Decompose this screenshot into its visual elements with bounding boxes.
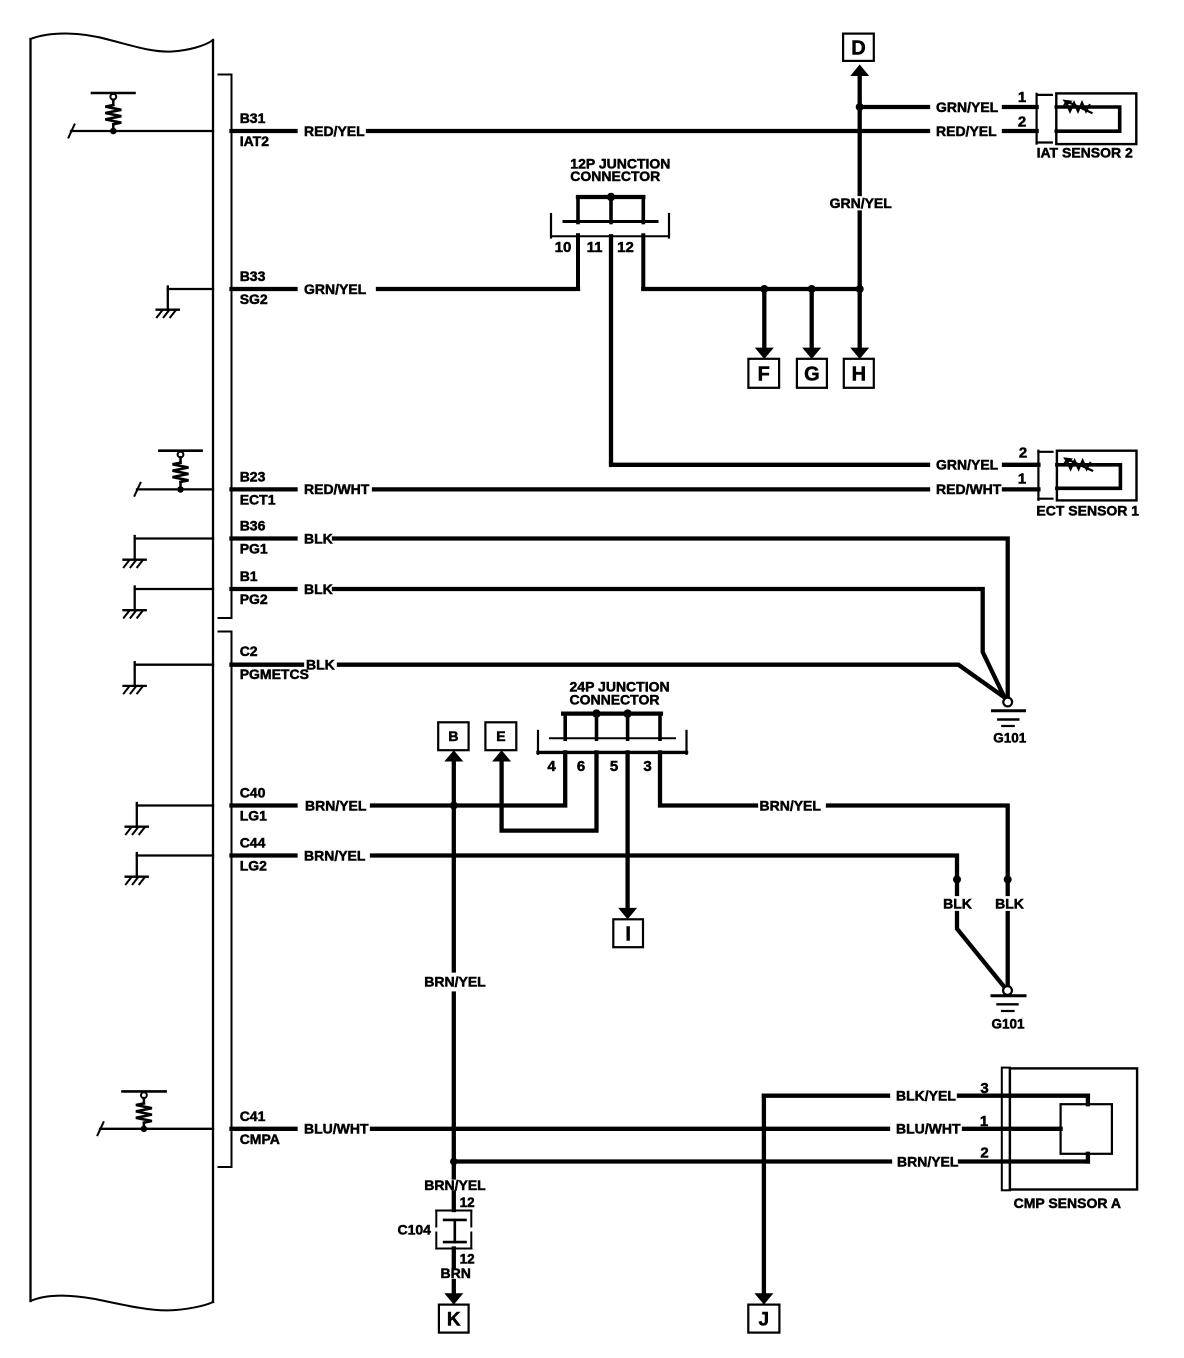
svg-text:C44: C44 xyxy=(240,835,266,851)
inline connector C104 xyxy=(436,1211,471,1249)
svg-text:LG1: LG1 xyxy=(240,808,267,824)
svg-text:11: 11 xyxy=(587,239,603,256)
wire-continuation slash B23 xyxy=(135,483,141,496)
svg-text:RED/WHT: RED/WHT xyxy=(936,481,1002,497)
ground SG2 internal xyxy=(157,287,213,318)
svg-text:B36: B36 xyxy=(240,518,266,534)
svg-text:E: E xyxy=(496,728,505,744)
resistor (ECT1 pull-up inside ECM) xyxy=(159,451,201,493)
wire BRN from C104 to K xyxy=(452,1249,456,1294)
resistor (IAT2 pull-up inside ECM) xyxy=(92,93,135,134)
wire BRN/YEL from 24P pin 3 to BLK drop xyxy=(660,752,1008,986)
ground PG1 internal xyxy=(124,536,214,567)
svg-text:B23: B23 xyxy=(240,468,266,484)
svg-text:B33: B33 xyxy=(240,268,266,284)
svg-text:BRN/YEL: BRN/YEL xyxy=(897,1153,959,1169)
ground PGMETCS internal xyxy=(124,662,214,693)
svg-text:5: 5 xyxy=(610,758,618,775)
svg-text:F: F xyxy=(758,364,770,386)
svg-text:BLK: BLK xyxy=(304,581,333,597)
IAT sensor 2 harness connector bracket xyxy=(1037,94,1052,144)
svg-text:RED/YEL: RED/YEL xyxy=(936,123,997,139)
junction dot H xyxy=(856,285,864,293)
CMP sensor A body xyxy=(1010,1068,1137,1189)
svg-text:G101: G101 xyxy=(993,731,1027,746)
ECT sensor 1 internal circuit xyxy=(1057,457,1121,488)
connector box H xyxy=(844,359,874,388)
svg-text:BRN/YEL: BRN/YEL xyxy=(424,1177,486,1193)
wire RED/WHT row B23 to ECT sensor 1 pin 1 xyxy=(232,487,1039,491)
svg-text:BLK: BLK xyxy=(306,656,335,672)
svg-text:CONNECTOR: CONNECTOR xyxy=(570,168,660,184)
svg-text:J: J xyxy=(759,1309,770,1330)
svg-text:1: 1 xyxy=(1018,471,1026,488)
24P junction connector pin 5 wire xyxy=(626,714,630,740)
12P junction connector busbar xyxy=(578,193,643,201)
IAT sensor 2 internal circuit xyxy=(1056,100,1119,132)
svg-text:2: 2 xyxy=(1018,114,1026,131)
CMP sensor A harness connector bracket xyxy=(1002,1068,1010,1191)
wire GRN/YEL row B33 to 12P junction connector pin 10 xyxy=(232,287,579,291)
svg-text:3: 3 xyxy=(643,758,651,775)
IAT sensor 2 body xyxy=(1056,93,1136,144)
svg-text:IAT2: IAT2 xyxy=(240,133,270,149)
svg-text:2: 2 xyxy=(980,1144,988,1161)
wire arrow to G xyxy=(810,289,814,348)
12P junction connector pin 12 wire xyxy=(641,197,645,223)
svg-text:BLK: BLK xyxy=(943,896,972,912)
wire GRN/YEL to IAT sensor 2 pin 1 xyxy=(860,105,1037,109)
svg-text:PGMETCS: PGMETCS xyxy=(240,666,309,682)
ground PG2 internal xyxy=(124,587,214,618)
svg-text:1: 1 xyxy=(1018,89,1026,106)
svg-text:ECT SENSOR 1: ECT SENSOR 1 xyxy=(1036,502,1139,518)
ECM pin header bracket (B rows) xyxy=(219,75,232,619)
svg-text:BLK: BLK xyxy=(304,530,333,546)
ECT sensor 1 body xyxy=(1057,451,1137,501)
connector box G xyxy=(797,359,827,388)
svg-text:LG2: LG2 xyxy=(240,858,267,874)
cavity numbers 24P connector xyxy=(547,758,651,775)
svg-text:RED/YEL: RED/YEL xyxy=(304,123,365,139)
svg-text:GRN/YEL: GRN/YEL xyxy=(936,99,999,115)
svg-text:BRN/YEL: BRN/YEL xyxy=(304,847,366,863)
wire BRN/YEL row C40 to 24P pin 4 xyxy=(232,752,566,805)
connector box K xyxy=(439,1305,469,1333)
wire-continuation slash B31 xyxy=(69,125,75,138)
24P junction connector pin 4 wire xyxy=(563,714,567,740)
svg-text:BRN/YEL: BRN/YEL xyxy=(305,797,367,813)
svg-text:C104: C104 xyxy=(398,1222,432,1238)
svg-text:CMP SENSOR A: CMP SENSOR A xyxy=(1014,1195,1121,1211)
ECT sensor 1 harness connector bracket xyxy=(1038,451,1052,500)
svg-text:GRN/YEL: GRN/YEL xyxy=(936,457,999,473)
svg-text:BLK/YEL: BLK/YEL xyxy=(896,1088,956,1104)
terminal numbers ECT sensor xyxy=(1018,445,1027,488)
wire BRN/YEL row C44 to BLK drop xyxy=(232,856,1005,987)
ground G101 (upper) xyxy=(993,698,1025,726)
svg-text:3: 3 xyxy=(980,1080,988,1097)
svg-text:BRN: BRN xyxy=(441,1265,471,1281)
svg-text:12: 12 xyxy=(460,1252,475,1267)
wire IAT2 internal to pin B31 xyxy=(71,130,213,132)
ground LG2 internal xyxy=(126,853,213,884)
terminal numbers IAT sensor xyxy=(1018,89,1026,131)
junction dot IAT tap xyxy=(856,103,864,111)
12P junction connector housing xyxy=(551,214,669,238)
ground LG1 internal xyxy=(126,803,213,834)
connector box J xyxy=(748,1305,779,1333)
wire BLU/WHT row C41 to CMP sensor pin 1 xyxy=(232,1127,1061,1131)
svg-text:10: 10 xyxy=(555,239,572,256)
svg-text:12: 12 xyxy=(460,1195,475,1210)
svg-text:H: H xyxy=(852,364,866,386)
svg-text:SG2: SG2 xyxy=(240,291,268,307)
wire arrow to H xyxy=(858,289,862,348)
24P junction connector busbar xyxy=(563,709,661,717)
svg-text:ECT1: ECT1 xyxy=(240,491,276,507)
wire BRN/YEL to CMP sensor pin 2 xyxy=(454,1154,1088,1162)
svg-text:4: 4 xyxy=(547,758,556,775)
wire BLK row B1 to G101 xyxy=(232,589,1005,698)
wire BLK/YEL from CMP sensor pin 3 to J xyxy=(764,1096,1088,1294)
connector box E xyxy=(485,722,516,750)
svg-text:BLU/WHT: BLU/WHT xyxy=(896,1121,961,1137)
resistor (CMPA pull-up inside ECM) xyxy=(123,1091,166,1132)
wire GRN/YEL from 12P pin 11 to ECT sensor 1 pin 2 xyxy=(611,236,1038,464)
junction dot F xyxy=(760,285,768,293)
wire arrow to F xyxy=(762,289,766,348)
wire from E box to 24P pin 6 xyxy=(502,752,597,830)
wire CMPA internal to pin C41 xyxy=(100,1128,213,1130)
cavity numbers 12P connector xyxy=(555,239,634,256)
svg-text:B1: B1 xyxy=(240,568,258,584)
CMP sensor A internal element xyxy=(1061,1104,1112,1154)
wire BLK row B36 to G101 xyxy=(232,539,1008,698)
24P junction connector pin 6 wire xyxy=(595,714,599,740)
svg-text:6: 6 xyxy=(577,758,585,775)
24P junction connector housing xyxy=(538,731,687,754)
svg-text:BLK: BLK xyxy=(995,896,1024,912)
svg-text:K: K xyxy=(447,1309,461,1330)
wire from 24P pin 5 to I box xyxy=(625,752,629,907)
12P junction connector pin 11 wire xyxy=(609,197,613,223)
svg-text:G101: G101 xyxy=(991,1016,1025,1031)
junction dot CMP BRN/YEL tap xyxy=(450,1158,458,1166)
connector box F xyxy=(748,359,779,388)
wire GRN/YEL from 12P pin 12 to node D/F/G/H xyxy=(643,287,859,291)
wire ECT1 internal to pin B23 xyxy=(137,488,213,490)
svg-text:CONNECTOR: CONNECTOR xyxy=(570,691,660,707)
splice dot on C40 BLK drop xyxy=(1004,876,1012,884)
svg-text:CMPA: CMPA xyxy=(240,1131,280,1147)
svg-text:C41: C41 xyxy=(240,1108,266,1124)
svg-text:B: B xyxy=(448,728,458,744)
ground G101 (lower) xyxy=(992,986,1025,1011)
wire BLK row C2 to G101 xyxy=(232,665,1006,698)
svg-text:GRN/YEL: GRN/YEL xyxy=(830,195,893,211)
svg-text:PG1: PG1 xyxy=(240,541,268,557)
wire RED/YEL row B31 to IAT sensor 2 pin 2 xyxy=(232,129,1037,133)
svg-text:C2: C2 xyxy=(240,643,258,659)
wire-continuation slash C41 xyxy=(98,1122,104,1135)
svg-text:BRN/YEL: BRN/YEL xyxy=(760,797,822,813)
svg-text:2: 2 xyxy=(1019,445,1027,462)
svg-text:12: 12 xyxy=(617,239,634,256)
svg-text:BRN/YEL: BRN/YEL xyxy=(424,974,486,990)
12P junction connector pin 10 wire xyxy=(576,197,580,223)
svg-text:1: 1 xyxy=(980,1113,988,1130)
wire GRN/YEL vertical up to D xyxy=(858,76,862,289)
svg-text:IAT SENSOR 2: IAT SENSOR 2 xyxy=(1037,144,1133,160)
terminal numbers CMP sensor xyxy=(980,1080,989,1161)
svg-text:G: G xyxy=(804,364,820,386)
wire BRN/YEL vertical B box to C104 xyxy=(452,761,456,1210)
ECM/PCM connector block (torn-edge body) xyxy=(31,33,214,1310)
connector box I xyxy=(613,919,643,947)
connector box B xyxy=(438,722,468,750)
svg-text:C40: C40 xyxy=(240,785,266,801)
junction dot C40/B xyxy=(450,802,458,810)
splice dot on C44 BLK drop xyxy=(953,876,961,884)
svg-text:RED/WHT: RED/WHT xyxy=(304,481,370,497)
svg-text:GRN/YEL: GRN/YEL xyxy=(304,281,367,297)
junction dot G xyxy=(808,285,816,293)
svg-text:I: I xyxy=(625,923,631,945)
svg-text:B31: B31 xyxy=(240,110,266,126)
svg-text:PG2: PG2 xyxy=(240,591,268,607)
ECM pin header bracket (C rows) xyxy=(219,632,232,1168)
svg-text:BLU/WHT: BLU/WHT xyxy=(304,1121,369,1137)
connector box D xyxy=(843,34,874,61)
24P junction connector pin 3 wire xyxy=(658,714,662,740)
svg-text:D: D xyxy=(851,38,865,60)
